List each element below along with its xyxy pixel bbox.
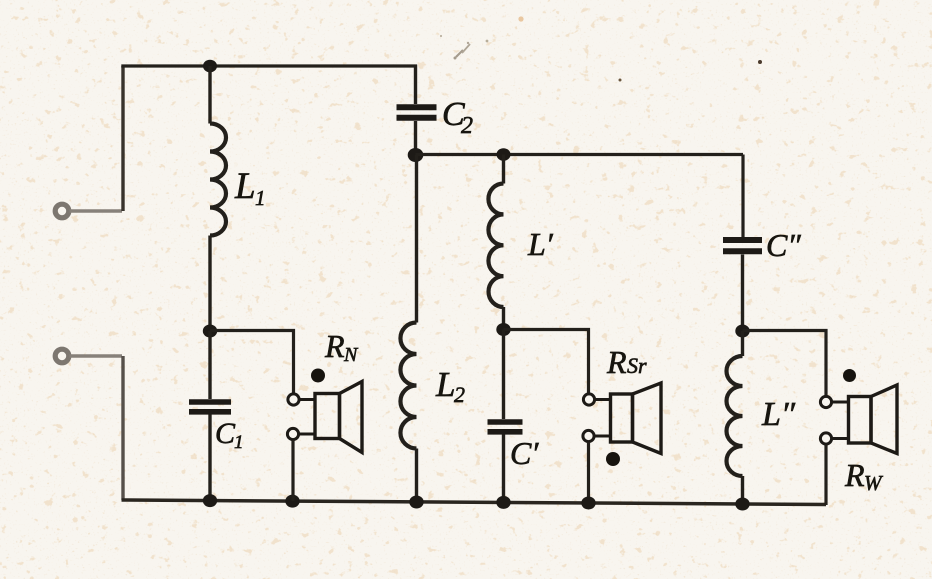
- speaker RN: [299, 382, 362, 453]
- svg-text:L: L: [435, 365, 455, 404]
- svg-text:N: N: [343, 344, 359, 366]
- svg-text:L: L: [234, 166, 256, 207]
- node junction C'' / L'' / RW: [735, 325, 749, 338]
- node junction L1 / C1 / RN: [203, 325, 217, 338]
- orange fleck: [518, 16, 523, 21]
- label L1: [234, 166, 266, 210]
- label L'': [761, 396, 796, 433]
- terminal T1 (upper input): [55, 204, 69, 218]
- speaker RSr terminal top circle: [583, 394, 594, 405]
- label RSr: [606, 344, 647, 380]
- label RW: [844, 457, 884, 495]
- wire mid rail corner to C'': [741, 155, 744, 238]
- svg-text:L″: L″: [761, 396, 796, 433]
- svg-text:R: R: [606, 344, 627, 380]
- wire L' top lead: [502, 155, 505, 184]
- speaker RW terminal top circle: [820, 396, 831, 407]
- node bottom rail at RN: [285, 495, 299, 508]
- capacitor C1: [189, 402, 231, 412]
- capacitor C2: [397, 107, 437, 118]
- svg-text:1: 1: [255, 186, 266, 210]
- dark speck middle: [619, 79, 622, 82]
- wire L'' bottom lead: [741, 476, 744, 504]
- svg-text:2: 2: [461, 113, 473, 139]
- wire C1 top lead: [208, 331, 211, 399]
- wire C'' bottom lead: [741, 255, 744, 332]
- wire left riser down to bottom rail: [121, 356, 124, 500]
- wire C2 top lead: [414, 65, 417, 105]
- gray smudge top center: [440, 35, 489, 60]
- polarity dot RN: [311, 369, 325, 383]
- dark speck top right: [758, 60, 762, 64]
- wire C' top lead: [502, 330, 505, 420]
- inductor L1: [210, 124, 226, 236]
- speaker RW terminal bottom circle: [820, 433, 831, 444]
- wire left riser up to top rail: [121, 66, 124, 211]
- wire bottom rail: [122, 500, 827, 505]
- node junction top rail / L1: [203, 60, 217, 73]
- svg-text:Sr: Sr: [627, 353, 647, 378]
- label C': [510, 435, 539, 471]
- node junction C2 / L2 / mid rail: [408, 148, 424, 162]
- node bottom rail at L2: [409, 496, 423, 509]
- terminal T2 (lower input): [55, 349, 69, 363]
- label RN: [324, 328, 359, 366]
- wire mid rail: [416, 153, 744, 156]
- wire L1 top lead: [208, 66, 211, 124]
- wire junction to RN top terminal: [210, 331, 294, 394]
- svg-text:C″: C″: [766, 227, 801, 263]
- node bottom rail at L'': [735, 498, 749, 511]
- wire L1 bottom lead: [208, 236, 211, 332]
- wire from T1 to left riser: [70, 209, 123, 212]
- svg-text:L′: L′: [527, 226, 554, 262]
- wire C' bottom lead: [502, 435, 505, 503]
- node bottom rail at C1: [203, 494, 217, 507]
- wire C1 bottom lead: [208, 415, 211, 502]
- speaker RN terminal top circle: [288, 394, 299, 405]
- wire RW bottom terminal to bottom rail: [824, 445, 827, 506]
- polarity dot RSr: [606, 452, 620, 466]
- wire C2 bottom lead: [414, 121, 417, 155]
- inductor L': [488, 184, 503, 308]
- speaker RSr terminal bottom circle: [583, 430, 594, 441]
- label C'': [766, 227, 801, 263]
- wire RSr bottom terminal to bottom rail: [587, 442, 590, 503]
- polarity dot RW: [843, 369, 856, 382]
- wire top rail: [121, 64, 417, 67]
- svg-text:1: 1: [234, 432, 244, 453]
- wire junction to RSr top terminal: [504, 330, 589, 395]
- label C1: [215, 417, 244, 453]
- svg-text:C′: C′: [510, 435, 539, 471]
- label L': [527, 226, 554, 262]
- svg-text:2: 2: [454, 382, 465, 407]
- wire from T2 to left riser: [70, 354, 123, 357]
- wire L'' top lead: [741, 331, 744, 356]
- label L2: [435, 365, 465, 407]
- speaker RN terminal bottom circle: [287, 428, 298, 439]
- svg-text:R: R: [844, 457, 865, 493]
- svg-text:C: C: [215, 417, 236, 450]
- wire L2 top lead: [415, 155, 418, 323]
- node bottom rail at C': [496, 496, 510, 509]
- speaker RSr: [595, 383, 662, 454]
- inductor L'': [727, 356, 743, 476]
- label C2: [442, 96, 473, 139]
- capacitor C': [488, 422, 523, 432]
- inductor L2: [400, 323, 416, 449]
- wire L' bottom lead: [502, 307, 505, 330]
- svg-text:R: R: [324, 328, 345, 364]
- node junction mid rail / L': [497, 148, 511, 161]
- speaker RW: [832, 385, 897, 454]
- wire RN bottom terminal to bottom rail: [291, 440, 294, 501]
- capacitor C'': [723, 240, 762, 251]
- wire junction to RW top terminal: [743, 331, 827, 397]
- node bottom rail at RSr: [581, 497, 595, 510]
- wire L2 bottom lead: [415, 449, 418, 503]
- node junction L' / C' / RSr: [496, 323, 510, 336]
- svg-text:W: W: [864, 471, 884, 495]
